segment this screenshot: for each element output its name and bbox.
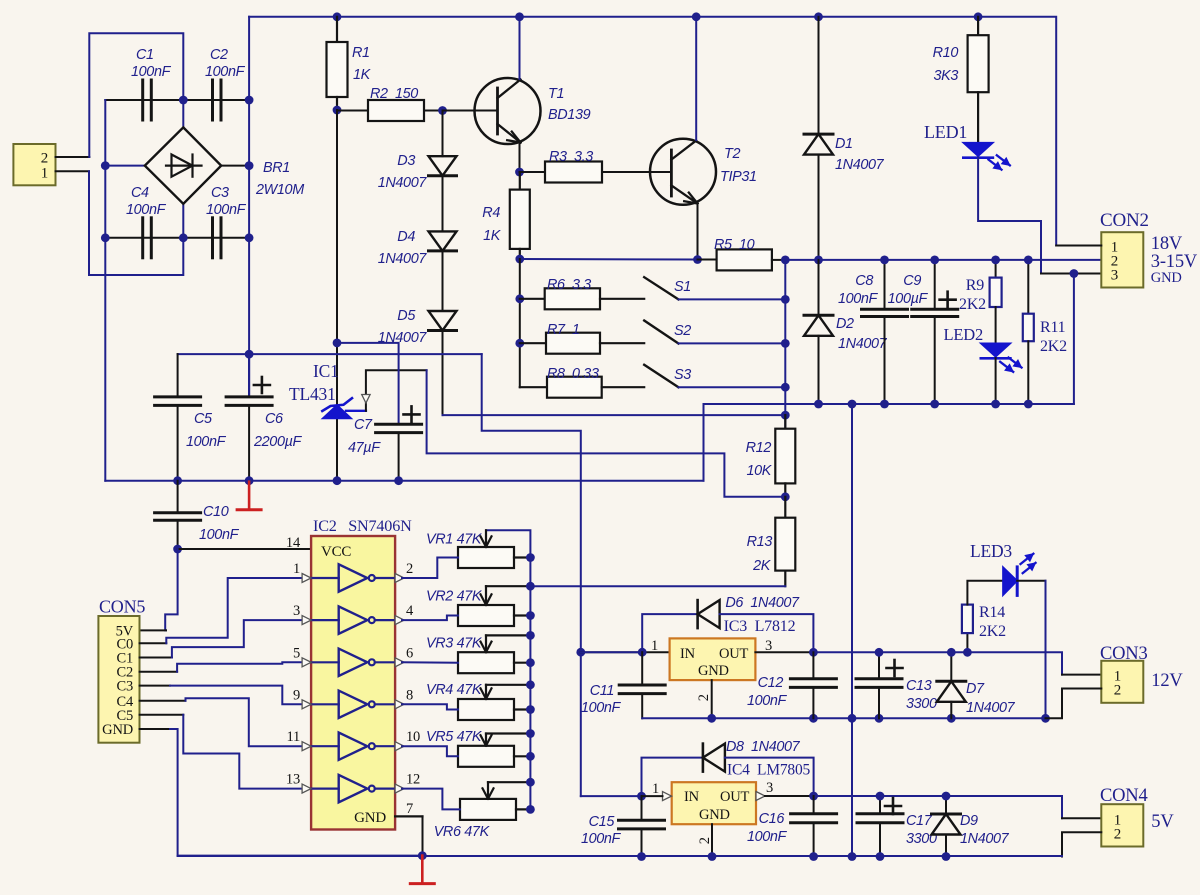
svg-text:1K: 1K [483, 228, 502, 244]
resistor R4 [519, 172, 521, 190]
switch S3 [644, 365, 678, 387]
wire ground cross vertical [851, 404, 853, 857]
node C7 branch junction [333, 339, 342, 348]
wire 3-15V output bus to CON2 pin2 [785, 259, 1101, 261]
resistor R3 [520, 171, 546, 173]
svg-text:10K: 10K [746, 463, 772, 479]
resistor R6 [520, 298, 545, 300]
svg-text:100nF: 100nF [186, 434, 227, 450]
potentiometer VR6 [460, 799, 516, 820]
wire IC2 pin7 to ground rail [422, 816, 424, 856]
svg-text:100nF: 100nF [206, 202, 247, 218]
svg-text:1: 1 [293, 561, 300, 577]
wire C7 branch [337, 343, 399, 424]
svg-text:R10: R10 [933, 45, 959, 61]
potentiometer VR3 [458, 652, 514, 673]
LED LED2 [995, 307, 997, 358]
svg-text:100nF: 100nF [747, 829, 788, 845]
wire IC3 pin3 output [755, 651, 813, 653]
svg-text:C13: C13 [906, 678, 932, 694]
node C11/D6 junction [638, 648, 647, 657]
svg-text:10: 10 [406, 729, 420, 745]
capacitor C7 [376, 423, 422, 426]
svg-text:VR1 47K: VR1 47K [426, 532, 483, 548]
svg-text:1N4007: 1N4007 [966, 700, 1016, 716]
diode D7 [950, 652, 952, 681]
svg-text:100nF: 100nF [199, 527, 240, 543]
wire R2 to T1 base [443, 110, 498, 112]
capacitor C12 [812, 652, 814, 679]
svg-text:2: 2 [696, 694, 712, 701]
svg-text:3K3: 3K3 [933, 68, 958, 84]
svg-text:CON5: CON5 [99, 597, 145, 617]
svg-text:1: 1 [41, 166, 48, 182]
wire T1 collector [519, 17, 521, 79]
wire main ground rail bottom-left [105, 480, 703, 482]
wire IC4 GND pin [711, 824, 713, 856]
svg-text:14: 14 [286, 535, 301, 551]
svg-text:IC4 LM7805: IC4 LM7805 [727, 762, 811, 779]
pin 3 input arrow [302, 616, 311, 625]
potentiometer VR5 [458, 746, 514, 767]
wire IC4 input lead [642, 795, 663, 797]
node R1 bottom junction [333, 106, 342, 115]
svg-text:9: 9 [293, 687, 300, 703]
wire bottom ground rail [178, 855, 1062, 857]
svg-text:R8 0.33: R8 0.33 [547, 366, 599, 382]
node R4 bottom junction [515, 255, 524, 264]
ground symbol (red) main [248, 482, 251, 509]
svg-text:3: 3 [766, 780, 773, 796]
diode D3 [442, 111, 444, 157]
wire top capacitor row [105, 99, 249, 101]
LED LED1 [963, 143, 994, 157]
pin 2 output arrow [395, 574, 404, 583]
svg-text:VR5 47K: VR5 47K [426, 729, 483, 745]
svg-text:18V: 18V [1151, 234, 1183, 254]
svg-text:R7 1: R7 1 [547, 322, 580, 338]
resistor R5 [698, 259, 717, 261]
VR3 wiper [486, 634, 530, 636]
wire D5 to R12 top node [442, 331, 444, 416]
svg-text:C15: C15 [589, 814, 616, 830]
svg-text:D6 1N4007: D6 1N4007 [725, 595, 800, 611]
capacitor C6 [248, 354, 250, 397]
switch S2 [644, 321, 678, 344]
wire CON3 pin2 [1046, 689, 1102, 719]
svg-text:GND: GND [699, 807, 730, 823]
wire bottom capacitor row [105, 237, 249, 239]
svg-text:VR4 47K: VR4 47K [426, 682, 483, 698]
wire bridge right vertex lead [221, 165, 249, 167]
wire IC4 pin3 output 5V row [765, 795, 814, 797]
svg-text:2K2: 2K2 [959, 296, 986, 313]
wire +V staircase to regulators [482, 354, 581, 796]
svg-text:C2: C2 [210, 47, 228, 63]
svg-text:12V: 12V [1151, 671, 1183, 691]
svg-text:R14: R14 [979, 604, 1005, 621]
capacitor C10 [177, 481, 179, 513]
svg-text:R13: R13 [747, 534, 773, 550]
potentiometer VR4 [458, 699, 514, 720]
svg-text:IC3 L7812: IC3 L7812 [724, 618, 796, 635]
svg-text:R2 150: R2 150 [370, 86, 418, 102]
svg-text:3-15V: 3-15V [1151, 252, 1198, 272]
svg-text:5V: 5V [1151, 812, 1174, 832]
svg-text:11: 11 [286, 729, 300, 745]
svg-text:R9: R9 [966, 277, 984, 294]
wire CON5 C3 to IC2 pin9 [140, 685, 171, 687]
wire VR wiper bus [486, 530, 530, 809]
wire CON5 GND down to ground rail [140, 728, 171, 730]
wire LED3 cathode down [1017, 581, 1045, 719]
LED LED3 [967, 581, 1003, 605]
svg-text:7: 7 [406, 801, 413, 817]
capacitor C1 [141, 80, 144, 120]
svg-text:D2: D2 [836, 316, 854, 332]
svg-text:C7: C7 [354, 417, 373, 433]
svg-text:C4: C4 [131, 185, 149, 201]
pin 11 input arrow [302, 742, 311, 751]
wire ground rail left riser [703, 404, 705, 481]
svg-text:R6 3.3: R6 3.3 [547, 277, 591, 293]
svg-text:5: 5 [293, 645, 300, 661]
capacitor C4 [141, 218, 144, 258]
svg-text:C1: C1 [136, 47, 154, 63]
wire CON5 C0 to IC2 pin1 [140, 642, 167, 644]
wire CON5 C1 to IC2 pin3 [140, 657, 172, 659]
resistor R2 [337, 110, 368, 112]
wire S2 to right bus [678, 342, 785, 344]
svg-text:100nF: 100nF [581, 700, 622, 716]
wire CON2 pin3 GND vertical [1073, 274, 1075, 405]
svg-text:47µF: 47µF [348, 440, 381, 456]
svg-text:1N4007: 1N4007 [378, 175, 428, 191]
svg-text:D5: D5 [397, 308, 416, 324]
svg-text:IC1: IC1 [313, 361, 339, 381]
diode D9 [945, 796, 947, 814]
svg-text:12: 12 [406, 772, 420, 788]
svg-text:8: 8 [406, 687, 413, 703]
capacitor C13 [878, 652, 880, 679]
capacitor C9 [934, 260, 936, 309]
inverter gate U2e [311, 745, 339, 747]
resistor R12 [784, 415, 786, 429]
wire +V rail to C5 [178, 353, 482, 355]
resistor R10 [977, 17, 979, 35]
wire T2 collector [695, 17, 697, 140]
pin 7 GND lead [395, 815, 422, 817]
svg-text:13: 13 [286, 772, 300, 788]
svg-text:IC2 SN7406N: IC2 SN7406N [313, 517, 412, 535]
svg-text:LED2: LED2 [943, 325, 983, 344]
wire LED1 cathode to CON2 GND [978, 158, 1041, 274]
resistor R7 [520, 342, 546, 344]
svg-text:BD139: BD139 [548, 107, 591, 123]
pin 10 output arrow [395, 742, 404, 751]
capacitor C5 [177, 354, 179, 397]
svg-text:4: 4 [406, 603, 414, 619]
pin 4 output arrow [395, 616, 404, 625]
svg-text:C8: C8 [855, 273, 873, 289]
svg-text:CON2: CON2 [1100, 210, 1149, 231]
svg-text:VR6 47K: VR6 47K [434, 824, 491, 840]
wire T1 emitter [519, 143, 521, 172]
capacitor C8 [884, 260, 886, 309]
node R12 bottom junction [781, 492, 790, 501]
svg-text:R4: R4 [482, 205, 500, 221]
svg-text:C11: C11 [590, 683, 614, 699]
svg-text:OUT: OUT [720, 789, 750, 805]
node T1 emitter junction [515, 168, 524, 177]
transistor T2 [650, 139, 716, 205]
svg-text:2K2: 2K2 [979, 623, 1006, 640]
VR4 wiper [486, 684, 530, 686]
node R2 output junction [438, 106, 447, 115]
svg-text:2200µF: 2200µF [253, 434, 303, 450]
diode D1 [818, 17, 820, 134]
wire base node vertical [336, 110, 338, 481]
svg-text:C6: C6 [265, 411, 283, 427]
inverter gate U2a [311, 577, 339, 579]
resistor R1 [336, 17, 338, 42]
VR2 wiper [486, 585, 530, 587]
pin 12 output arrow [395, 784, 404, 793]
svg-text:GND: GND [1151, 270, 1182, 286]
inverter gate U2d [311, 703, 339, 705]
wire T2 emitter [697, 204, 699, 260]
potentiometer VR1 [458, 547, 514, 568]
svg-text:C9: C9 [903, 273, 921, 289]
resistor R9 [995, 260, 997, 278]
VR5 wiper [486, 732, 530, 734]
svg-text:1: 1 [652, 781, 659, 797]
svg-text:D8 1N4007: D8 1N4007 [726, 739, 801, 755]
svg-text:R11: R11 [1040, 319, 1066, 336]
svg-text:1: 1 [651, 638, 658, 654]
resistor R14 [966, 633, 968, 652]
svg-text:C3: C3 [116, 679, 133, 695]
svg-text:2: 2 [1114, 827, 1121, 843]
capacitor C2 [211, 80, 214, 120]
svg-text:1K: 1K [353, 67, 372, 83]
svg-text:100µF: 100µF [888, 291, 929, 307]
svg-text:BR1: BR1 [263, 160, 290, 176]
svg-text:100nF: 100nF [205, 64, 246, 80]
svg-text:2: 2 [41, 151, 48, 167]
node regulator feed IC4 [581, 795, 642, 797]
wire ground rail mid [704, 403, 1074, 405]
svg-text:C12: C12 [758, 675, 784, 691]
wire bridge left vertex lead [105, 165, 145, 167]
svg-text:100nF: 100nF [581, 831, 622, 847]
node T2 emitter junction [693, 255, 702, 264]
svg-text:1N4007: 1N4007 [838, 336, 888, 352]
resistor R11 [1027, 260, 1029, 314]
wire AC pin1 stub [56, 170, 90, 172]
svg-text:3300: 3300 [906, 696, 937, 712]
wire AC pin2 stub [56, 156, 90, 158]
svg-text:100nF: 100nF [838, 291, 879, 307]
svg-text:D1: D1 [835, 136, 853, 152]
potentiometer VR2 [458, 605, 514, 626]
svg-text:IN: IN [684, 789, 700, 805]
switch S1 [644, 277, 678, 299]
svg-text:3: 3 [1111, 268, 1118, 284]
wire 5V net from CON5 [165, 549, 177, 630]
svg-text:R12: R12 [746, 440, 772, 456]
resistor R8 [520, 386, 547, 388]
svg-text:R5 10: R5 10 [714, 237, 755, 253]
IC4 pin3 arrow [756, 792, 765, 801]
inverter gate U2f [311, 787, 339, 789]
svg-text:D4: D4 [397, 229, 415, 245]
svg-text:VR3 47K: VR3 47K [426, 636, 483, 652]
svg-text:100nF: 100nF [747, 693, 788, 709]
wire CON4 pin2 [1062, 832, 1101, 856]
svg-text:LED1: LED1 [924, 122, 967, 142]
wire IC2 pin14 VCC [178, 548, 312, 550]
wire S3 to right bus [678, 386, 785, 388]
svg-text:2: 2 [406, 561, 413, 577]
wire CON5 C5 to IC2 pin13 [140, 714, 184, 716]
svg-text:3: 3 [293, 603, 300, 619]
svg-text:C3: C3 [211, 185, 229, 201]
svg-text:S2: S2 [674, 323, 691, 339]
IC4 pin1 arrow [663, 792, 672, 801]
svg-text:2K: 2K [752, 558, 772, 574]
wire switch bank left bus [519, 259, 521, 387]
node regulator feed IC3 [576, 648, 585, 657]
svg-text:TL431: TL431 [289, 384, 336, 404]
svg-text:2: 2 [697, 837, 713, 844]
wire S1 to right bus [678, 298, 785, 300]
svg-text:C10: C10 [203, 504, 229, 520]
svg-text:C16: C16 [759, 811, 785, 827]
svg-text:2K2: 2K2 [1040, 338, 1067, 355]
svg-text:CON4: CON4 [1100, 786, 1148, 806]
svg-text:6: 6 [406, 645, 413, 661]
resistor R13 [784, 497, 786, 518]
wire DC minus vertical [104, 100, 106, 481]
svg-text:C5: C5 [194, 411, 213, 427]
capacitor C16 [813, 796, 815, 814]
capacitor C15 [641, 796, 643, 820]
wire CON5 C2 to IC2 pin5 [140, 671, 178, 673]
bridge rectifier BR1 [145, 127, 221, 203]
wire IC3 GND pin [711, 680, 713, 718]
svg-text:100nF: 100nF [131, 64, 172, 80]
node IC2 VCC junction [173, 545, 182, 554]
svg-text:2W10M: 2W10M [255, 182, 304, 198]
svg-text:R3 3.3: R3 3.3 [549, 149, 593, 165]
wire R13 bottom to VR wiper bus [530, 585, 785, 587]
wire switch right bus down to R12 [784, 260, 786, 429]
wire IC3 input rail [581, 651, 670, 653]
ground symbol (red) logic [421, 856, 424, 883]
svg-text:S3: S3 [674, 367, 691, 383]
pin 5 input arrow [302, 658, 311, 667]
capacitor C11 [641, 652, 643, 685]
svg-text:100nF: 100nF [126, 202, 167, 218]
wire AC pin2 loop to bridge top [89, 33, 183, 157]
wire 12V ground row [642, 717, 1045, 719]
pin 8 output arrow [395, 700, 404, 709]
inverter gate U2b [311, 619, 339, 621]
VR1 wiper [485, 530, 487, 547]
svg-text:LED3: LED3 [970, 541, 1012, 561]
svg-text:D9: D9 [960, 813, 978, 829]
VR6 wiper [488, 781, 530, 783]
pin 6 output arrow [395, 658, 404, 667]
wire AC pin1 loop to bridge bottom [89, 171, 183, 275]
svg-text:1N4007: 1N4007 [960, 831, 1010, 847]
svg-text:S1: S1 [674, 279, 691, 295]
pin 1 input arrow [302, 574, 311, 583]
diode D2 [818, 260, 820, 315]
node R5 right junction [781, 256, 790, 265]
svg-text:T2: T2 [724, 146, 740, 162]
svg-text:D7: D7 [966, 681, 985, 697]
svg-text:1N4007: 1N4007 [378, 251, 428, 267]
svg-text:GND: GND [354, 810, 386, 826]
svg-text:TIP31: TIP31 [720, 169, 757, 185]
svg-text:VCC: VCC [321, 544, 351, 560]
inverter gate U2c [311, 661, 339, 663]
svg-text:1N4007: 1N4007 [835, 157, 885, 173]
svg-text:R1: R1 [352, 45, 370, 61]
pin 9 input arrow [302, 700, 311, 709]
transistor T1 [475, 78, 541, 144]
svg-text:IN: IN [680, 646, 696, 662]
svg-text:GND: GND [102, 722, 133, 738]
diode D8 [642, 758, 703, 797]
svg-text:T1: T1 [548, 86, 564, 102]
wire +18V top rail [248, 17, 250, 100]
node CON2 pin3 junction [1070, 269, 1079, 278]
pin 13 input arrow [302, 784, 311, 793]
diode D5 [442, 251, 444, 311]
diode D4 [442, 176, 444, 232]
svg-text:2: 2 [1114, 683, 1121, 699]
wire CON2 pin1 18V [1056, 245, 1101, 247]
svg-text:C17: C17 [906, 813, 933, 829]
wire 3-15V output bus left part [520, 258, 698, 261]
capacitor C17 [879, 796, 881, 814]
svg-text:VR2 47K: VR2 47K [426, 588, 483, 604]
wire TL431 ref pin [346, 410, 366, 412]
svg-text:D3: D3 [397, 153, 415, 169]
diode D6 [642, 614, 697, 652]
node R12 top junction [781, 411, 790, 420]
svg-text:OUT: OUT [719, 646, 749, 662]
wire CON5 C4 to IC2 pin11 [140, 700, 186, 702]
node junction dots bridge area [179, 96, 188, 105]
capacitor C3 [211, 218, 214, 258]
svg-text:GND: GND [698, 663, 729, 679]
connector CON1 (AC input) [13, 144, 55, 185]
